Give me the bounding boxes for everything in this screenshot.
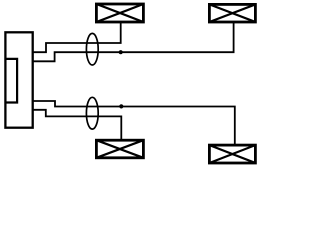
wire from J1 pin 4 to winding W3 [33,110,122,139]
connector J1 body [5,32,32,127]
wire from J1 pin 1 to winding W1 [33,23,121,52]
winding W1 (crossed box) [96,4,143,22]
wire from J1 pin 2 to winding W2 [33,23,234,61]
wire from J1 pin 3 to winding W4 [33,101,235,145]
winding W2 (crossed box) [209,4,255,22]
winding W4 (crossed box) [209,145,255,163]
ferrite core sleeve E1 [86,33,98,65]
connector J1 key slot [5,59,17,103]
ferrite core sleeve E2 [86,97,98,129]
junction dot node N2 [119,104,123,108]
winding W3 (crossed box) [96,140,143,158]
junction dot node N1 [119,50,123,54]
